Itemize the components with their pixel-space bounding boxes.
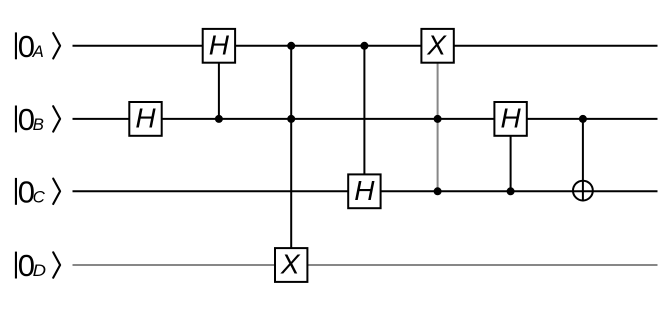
svg-text:H: H — [209, 29, 230, 60]
svg-text:A: A — [32, 43, 44, 61]
svg-text:H: H — [135, 103, 156, 134]
svg-text:X: X — [280, 249, 301, 280]
svg-text:X: X — [426, 29, 447, 60]
svg-text:D: D — [33, 262, 46, 280]
svg-text:C: C — [33, 189, 45, 207]
svg-text:H: H — [354, 175, 375, 206]
svg-text:H: H — [500, 103, 521, 134]
svg-text:B: B — [33, 116, 44, 134]
